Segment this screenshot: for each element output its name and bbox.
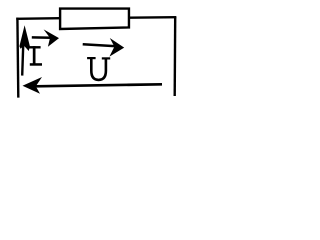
current arrow up (left branch) — [19, 25, 29, 75]
vector arrow over U — [83, 38, 125, 57]
current return arrow (bottom, pointing left) — [23, 77, 163, 94]
label I — [28, 46, 42, 66]
resistor R — [60, 9, 129, 29]
vector arrow over I — [32, 29, 59, 46]
wire left side — [16, 18, 19, 98]
wire top-right segment — [129, 16, 176, 19]
wire right side — [173, 17, 176, 96]
label U — [87, 57, 110, 80]
wire top-left segment — [16, 17, 60, 20]
